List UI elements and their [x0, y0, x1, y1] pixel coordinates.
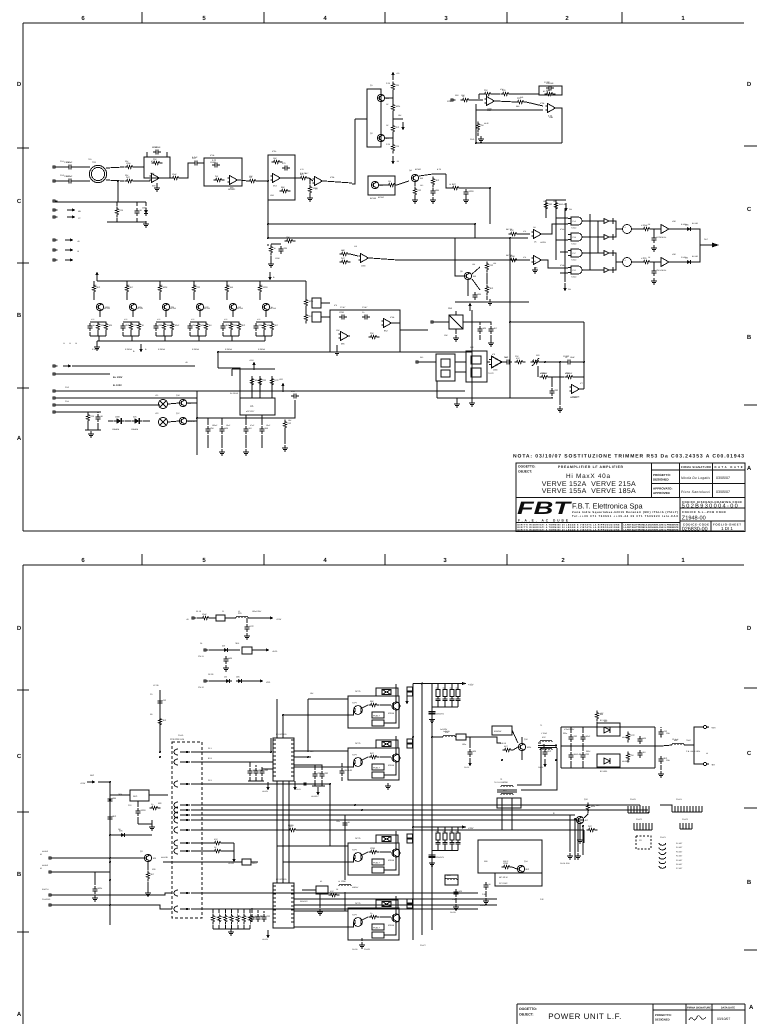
MOSFET Q13 [196, 303, 209, 310]
svg-text:GND: GND [470, 138, 475, 141]
net arrow A1 [63, 364, 72, 367]
node junction [509, 237, 511, 239]
node junction [501, 759, 503, 761]
wire [143, 420, 150, 422]
fuse F1 [216, 615, 225, 621]
capacitor C124 [483, 882, 491, 890]
wire HV bus c [431, 684, 433, 931]
wire pair 1b [613, 229, 616, 237]
svg-text:Z1948-00: Z1948-00 [682, 516, 706, 522]
node junction [509, 321, 511, 323]
svg-text:Hi MaxX 40a: Hi MaxX 40a [566, 473, 610, 480]
svg-text:TLP7: TLP7 [352, 849, 358, 852]
node junction [267, 237, 269, 239]
svg-text:PCB PRE1-05: PCB PRE1-05 [170, 738, 185, 741]
wire [248, 617, 266, 619]
capacitor source C22 [153, 323, 162, 331]
svg-text:F.B.T. Elettronica Spa: F.B.T. Elettronica Spa [572, 502, 644, 511]
op-amp U2A [271, 174, 283, 188]
svg-text:BC550: BC550 [370, 197, 377, 200]
svg-text:7815: 7815 [235, 642, 239, 645]
pin arrow PL2 [186, 761, 191, 764]
connector CN-16 [49, 904, 54, 907]
wire [251, 861, 258, 863]
svg-text:120R: 120R [339, 311, 344, 314]
wire [97, 412, 99, 413]
ground C101 [244, 633, 250, 639]
svg-text:U5: U5 [250, 405, 254, 408]
capacitor C132 [259, 768, 268, 776]
wire relay out [285, 400, 295, 418]
wire T2 down a [501, 798, 503, 830]
net arrow +15V PB1 [458, 683, 462, 685]
wire [222, 332, 224, 336]
pin arrow PL3 [186, 783, 191, 786]
wire [223, 842, 234, 844]
connector CN-15 [49, 894, 54, 897]
svg-text:OGGETTO:: OGGETTO: [519, 1007, 537, 1011]
svg-text:100n: 100n [462, 743, 466, 746]
svg-text:+15V: +15V [249, 359, 254, 362]
wire [122, 332, 124, 336]
svg-text:BC550: BC550 [378, 196, 384, 199]
wire [472, 321, 480, 323]
transistor Q102 [518, 743, 532, 750]
snubber cap SW4 [382, 902, 391, 907]
wire [521, 737, 523, 743]
resistor R27 [285, 236, 296, 243]
wire U4A out [543, 224, 568, 234]
wire U104 to SW4 a [294, 910, 345, 912]
wire [486, 273, 488, 284]
svg-text:CN-11: CN-11 [198, 655, 205, 658]
wire [246, 618, 248, 623]
wire [271, 332, 273, 336]
node junction [475, 142, 477, 144]
svg-text:68K: 68K [478, 293, 482, 296]
wire [341, 763, 343, 767]
svg-text:68K: 68K [370, 700, 374, 703]
capacitor source C20 [87, 323, 95, 331]
svg-text:LA FBT ELETTRONICA DICHIARA CH: LA FBT ELETTRONICA DICHIARA CHE IL PRESE… [624, 523, 680, 526]
svg-text:B-: B- [273, 276, 275, 279]
wire [87, 412, 89, 413]
svg-text:C: C [747, 206, 752, 213]
wire [135, 180, 150, 182]
wire [477, 133, 479, 136]
node junction [421, 683, 423, 685]
wire [85, 411, 101, 413]
svg-text:15K: 15K [265, 427, 269, 430]
wire [652, 228, 658, 230]
wire [127, 834, 152, 836]
svg-text:P3 NET: P3 NET [676, 850, 683, 853]
capacitor C119 [542, 749, 552, 757]
svg-text:10MF: 10MF [570, 356, 576, 359]
wire [74, 180, 90, 182]
wire main low bus [56, 390, 465, 392]
wire [151, 820, 153, 824]
wire bundle a [276, 781, 278, 883]
wire SW2 gate [380, 756, 391, 758]
transistor Q1 [377, 94, 389, 101]
snubber box SW4 [376, 900, 398, 908]
connector pin PL12 [174, 906, 178, 912]
bulk cap PB1 [429, 707, 436, 718]
svg-text:1M: 1M [224, 676, 227, 679]
rail arrow B- right [268, 272, 272, 281]
wire [251, 376, 253, 398]
svg-text:A: A [749, 1004, 754, 1011]
relay RL1 outline [436, 354, 455, 381]
net arrow VDD [255, 679, 264, 682]
svg-text:IC6: IC6 [492, 353, 495, 356]
diode D5 [131, 416, 142, 424]
wire gate stub 1 [556, 217, 568, 219]
wire out+ [694, 727, 703, 745]
svg-text:2K2: 2K2 [420, 184, 423, 187]
ground resistor column [228, 929, 234, 935]
wire [584, 814, 588, 818]
transformer T2 secondary [501, 789, 513, 795]
wire [419, 174, 433, 176]
buffer after P-D [604, 268, 609, 273]
MOSFET SW4 [388, 914, 400, 927]
inductor L4 [339, 880, 351, 886]
wire into SW3 [329, 784, 331, 846]
svg-text:RL1: RL1 [420, 356, 423, 359]
wire [478, 94, 480, 99]
svg-text:VDD: VDD [266, 681, 271, 684]
wire [106, 180, 124, 181]
wire [181, 163, 192, 178]
svg-text:C5: C5 [150, 693, 152, 696]
wire [265, 311, 267, 317]
wire SW2 source [384, 762, 396, 775]
svg-text:502B930004-00: 502B930004-00 [682, 504, 738, 510]
pin box SW3 b [407, 839, 413, 843]
wire [455, 898, 457, 903]
wire [379, 184, 388, 186]
wire [294, 781, 296, 783]
svg-text:220u: 220u [563, 732, 567, 735]
connector J5 [53, 216, 58, 219]
inductor L2 [443, 731, 455, 737]
resistor source R53 [196, 322, 204, 333]
capacitor C42 10MF [565, 356, 573, 364]
svg-text:U1 SG3525: U1 SG3525 [276, 733, 287, 736]
wire [54, 201, 118, 203]
svg-text:U2 SG3525: U2 SG3525 [276, 878, 287, 881]
wire bridge right [654, 727, 656, 768]
wire RC join [233, 843, 235, 855]
pin box SW3 a [407, 834, 413, 838]
connector CN-10 [192, 617, 197, 620]
ground cluster [268, 261, 274, 267]
connector J2 input right [53, 180, 58, 183]
svg-text:BY W51: BY W51 [600, 770, 608, 773]
wire [209, 649, 222, 651]
resistor source R59 [204, 322, 211, 333]
svg-text:C42: C42 [540, 898, 543, 901]
svg-text:IC4A: IC4A [560, 228, 565, 231]
wire [344, 841, 346, 880]
svg-text:1u: 1u [443, 687, 445, 690]
svg-text:IRF540: IRF540 [270, 307, 276, 310]
resistor R72 [565, 372, 576, 379]
resistor gate R40 [92, 284, 101, 295]
wire rail ext [265, 280, 306, 282]
svg-text:T2 E1-1500: T2 E1-1500 [494, 781, 503, 784]
wire [252, 649, 262, 651]
node junction [267, 223, 269, 225]
svg-text:TLP7: TLP7 [352, 754, 358, 757]
wire left bus vertical [109, 782, 111, 925]
MOSFET Q14 [229, 303, 241, 310]
driver IC SW1 [372, 712, 384, 718]
power +15V supervisor [252, 362, 256, 371]
driver IC SW4 b [372, 932, 384, 938]
svg-text:LP1: LP1 [155, 394, 158, 397]
resistor R68 [369, 332, 380, 339]
svg-text:BC560: BC560 [415, 168, 421, 171]
wire caps top rail [315, 765, 322, 770]
svg-text:L3: L3 [660, 736, 662, 739]
driver IC SW1 b [372, 720, 384, 726]
svg-text:546: 546 [520, 96, 523, 99]
wire [226, 294, 228, 300]
wire [472, 279, 480, 290]
svg-text:33K: 33K [370, 332, 374, 335]
svg-text:+15V: +15V [468, 684, 474, 687]
pin header P4 [680, 823, 692, 829]
wire [161, 177, 171, 179]
wire [321, 780, 323, 786]
driver IC SW3 [372, 859, 384, 865]
wire [168, 421, 179, 422]
wire [582, 743, 584, 751]
capacitor C10 [463, 189, 474, 197]
resistor R10 [299, 173, 310, 180]
svg-text:4R7: 4R7 [604, 720, 607, 723]
wire bus line 2 [202, 809, 648, 811]
svg-text:C: C [747, 750, 752, 757]
net arrow +15V PB2 [458, 826, 462, 828]
wire divider down [559, 362, 561, 405]
wire bus4 drop [582, 826, 584, 855]
wire [575, 376, 584, 378]
wire [467, 280, 469, 296]
resistor R112 [503, 745, 514, 752]
wire [125, 420, 131, 422]
stage 2 outline [204, 158, 242, 186]
svg-text:0.22/5W: 0.22/5W [158, 348, 165, 351]
wire [512, 867, 517, 869]
sheet 2 designer signature [689, 1016, 706, 1020]
svg-text:P NEG: P NEG [681, 256, 687, 259]
capacitor C33 [243, 426, 251, 434]
wire [56, 404, 160, 406]
wire [159, 281, 161, 284]
capacitor C122 [580, 734, 591, 742]
filter column PB2.1 [443, 827, 448, 851]
wire [193, 294, 195, 300]
svg-text:P-2: P-2 [623, 259, 626, 262]
ground bank PB2 [429, 860, 435, 866]
svg-text:1u: 1u [450, 830, 452, 833]
wire bus line 10 [294, 898, 497, 900]
svg-text:2W: 2W [211, 427, 214, 430]
wire [207, 418, 209, 425]
connector pin PL1 [174, 749, 178, 755]
svg-text:2K2: 2K2 [226, 284, 229, 287]
wire [487, 361, 490, 363]
wire loop left [231, 369, 233, 376]
wire [97, 332, 99, 336]
resistor R2 [125, 176, 136, 183]
wire [166, 152, 168, 157]
capacitor C125b [637, 750, 645, 758]
pin arrow PL12 [186, 908, 191, 911]
driver IC SW2 b [372, 772, 384, 778]
resistor gate R43 [192, 284, 200, 295]
svg-text:PC817: PC817 [373, 715, 380, 718]
svg-text:47K: 47K [214, 838, 218, 841]
svg-text:NE5532: NE5532 [228, 188, 236, 191]
capacitor C103 [157, 698, 166, 706]
resistor R65 [250, 377, 260, 388]
resistor R15 [391, 143, 399, 154]
wire T1 b [555, 744, 557, 748]
wire U103 out stub [294, 756, 311, 758]
connector CB+ [703, 725, 706, 728]
wire hook 3 [660, 805, 672, 806]
sheet 2 border frame [23, 565, 744, 1024]
wire SW1 opto out [362, 705, 368, 708]
wire [126, 281, 128, 284]
svg-text:03/05/07: 03/05/07 [716, 490, 730, 494]
capacitor C13 [651, 268, 659, 276]
resistor R26 [269, 245, 276, 256]
svg-text:1u: 1u [436, 830, 438, 833]
wire [255, 777, 257, 781]
connector pin PL3 [174, 781, 178, 787]
MOSFET Q15 [262, 303, 273, 310]
wire bus line 1 [202, 804, 640, 806]
svg-text:4.7uF: 4.7uF [192, 156, 198, 159]
svg-text:41.1K: 41.1K [543, 90, 549, 93]
svg-text:1M: 1M [209, 324, 212, 327]
resistor R22 [387, 180, 398, 187]
svg-text:1N4148: 1N4148 [188, 420, 196, 423]
svg-text:15K: 15K [273, 157, 277, 160]
capacitor C124b [637, 736, 646, 744]
wire SW1 gate [380, 704, 391, 706]
svg-text:IC7: IC7 [580, 382, 583, 385]
wire SW2 opto out [362, 757, 368, 760]
cap stub P-A [612, 218, 614, 224]
ground U5c [282, 445, 288, 451]
svg-text:PC817: PC817 [373, 767, 380, 770]
capacitor C101 [244, 624, 254, 632]
filter column PB1.0 [436, 684, 441, 708]
filter column PB2.0 [436, 827, 441, 851]
wire [513, 747, 518, 750]
capacitor C123 [580, 752, 589, 760]
pin header P3 [634, 823, 652, 830]
connector pin PL8 [174, 827, 178, 833]
ground C10 [463, 197, 469, 203]
wire [319, 894, 321, 908]
svg-text:MUR860: MUR860 [622, 760, 629, 763]
wire T1 a [543, 744, 545, 748]
resistor R20 [516, 97, 527, 104]
sheet 1 zone coordinate labels [17, 15, 752, 472]
wire [147, 882, 149, 890]
wire resistor column stub [237, 909, 239, 913]
stage 3 outline [268, 155, 295, 200]
svg-text:PROGETTO:: PROGETTO: [653, 473, 671, 477]
svg-text:J3: J3 [75, 342, 77, 345]
svg-text:VERVE 155A VERVE 185A: VERVE 155A VERVE 185A [542, 488, 636, 495]
wire SW3 in [330, 845, 348, 847]
capacitor C137 [319, 771, 328, 779]
wire bottom return [437, 397, 553, 399]
svg-text:47 PF: 47 PF [152, 146, 158, 149]
svg-text:IC2B: IC2B [330, 176, 335, 179]
supply arrow gate bus [563, 283, 567, 292]
svg-text:TR1: TR1 [88, 158, 92, 161]
svg-text:PM: PM [569, 208, 572, 211]
capacitor C35 [291, 390, 299, 398]
connector line in [451, 99, 456, 102]
svg-text:33K: 33K [284, 247, 288, 250]
svg-text:100K: 100K [142, 207, 147, 210]
wire SW4 drain up [395, 896, 397, 914]
svg-text:EARTH: EARTH [42, 888, 49, 891]
svg-text:L4: L4 [338, 880, 340, 883]
wire [110, 794, 130, 796]
wire [669, 228, 685, 230]
ground R21 [478, 136, 484, 142]
svg-text:1M: 1M [388, 180, 391, 183]
svg-text:1M: 1M [643, 751, 646, 754]
resistor source R50 [96, 322, 104, 333]
capacitor C133 [249, 914, 262, 922]
wire SW4 source [384, 922, 396, 935]
capacitor source C25 [253, 323, 262, 331]
resistor R23 [413, 187, 421, 198]
snubber box SW1 [376, 688, 398, 696]
svg-text:B- 100V: B- 100V [113, 384, 122, 387]
connector J7 [53, 249, 58, 252]
wire [321, 302, 330, 304]
wire [198, 336, 200, 341]
connector pin PL2 [174, 759, 178, 765]
ground U4B [532, 267, 538, 273]
svg-text:RL2: RL2 [470, 346, 473, 349]
transistor Q17 [179, 417, 195, 424]
ground trimmer [453, 335, 459, 341]
wire HV bus b [421, 684, 423, 936]
wire [85, 429, 101, 431]
capacitor C102 [223, 656, 232, 664]
svg-text:1N5404: 1N5404 [112, 428, 120, 431]
wire [582, 727, 584, 733]
diode D3 [685, 257, 693, 265]
connector CN-U footprint [659, 843, 666, 868]
wire gate bus c [564, 208, 566, 282]
